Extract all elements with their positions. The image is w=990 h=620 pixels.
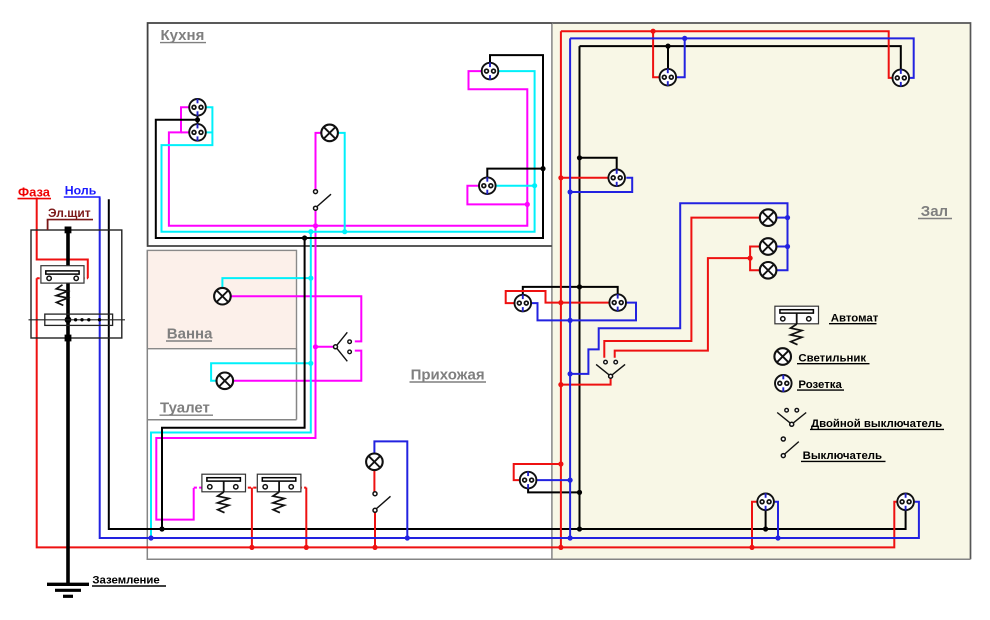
svg-text:Светильник: Светильник — [798, 352, 866, 364]
svg-text:Кухня: Кухня — [161, 27, 205, 44]
svg-text:Эл.щит: Эл.щит — [48, 206, 91, 220]
svg-text:Туалет: Туалет — [160, 400, 210, 417]
svg-text:Заземление: Заземление — [92, 574, 159, 586]
svg-text:Двойной выключатель: Двойной выключатель — [811, 418, 942, 430]
svg-text:Автомат: Автомат — [831, 312, 879, 324]
svg-text:Фаза: Фаза — [18, 184, 51, 199]
svg-text:Зал: Зал — [921, 203, 948, 220]
svg-text:Розетка: Розетка — [798, 379, 842, 391]
svg-text:Прихожая: Прихожая — [411, 366, 485, 383]
svg-text:Ноль: Ноль — [65, 184, 97, 198]
svg-text:Ванна: Ванна — [167, 325, 213, 342]
svg-text:Выключатель: Выключатель — [803, 450, 882, 462]
